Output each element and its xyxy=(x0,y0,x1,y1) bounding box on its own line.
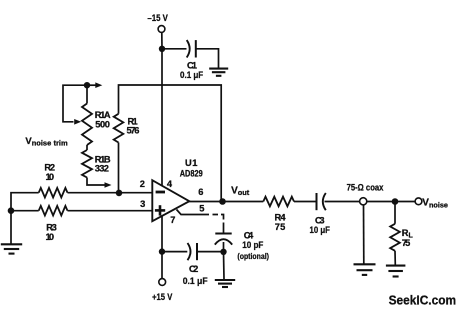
wire: C1 to its ground xyxy=(196,49,219,68)
wire: R2 to op-amp pin 2 xyxy=(68,192,153,194)
capacitor C2 0.1 uF xyxy=(183,243,208,286)
svg-text:500: 500 xyxy=(95,120,110,130)
svg-text:R1A: R1A xyxy=(95,110,111,120)
wiper arrow into R1A xyxy=(74,119,81,125)
ground (RL) xyxy=(386,265,406,267)
wire: R3 to op-amp pin 3 xyxy=(68,210,153,212)
wire: R1A top loop (left column) xyxy=(63,85,87,122)
wire: C3 to coax connector xyxy=(325,201,360,203)
svg-text:Vout: Vout xyxy=(231,186,250,198)
svg-text:(optional): (optional) xyxy=(237,252,269,261)
wire: op-amp output to R4 xyxy=(189,201,263,203)
wire: -15V terminal to rail junction xyxy=(161,32,163,48)
node: pin7 rail / C2 junction xyxy=(159,248,165,254)
wire: junction to C1 xyxy=(162,48,187,50)
resistor R3 10 xyxy=(39,206,68,242)
potentiometer R1A 500 xyxy=(82,85,111,145)
svg-text:–15 V: –15 V xyxy=(147,13,168,23)
wire: node down to ground xyxy=(223,252,226,279)
svg-text:7: 7 xyxy=(170,215,175,225)
wire: left corner to R2 xyxy=(11,193,39,244)
wire: op-amp pin 7 to +15V xyxy=(161,216,163,278)
svg-text:Vnoise: Vnoise xyxy=(422,198,448,210)
svg-text:332: 332 xyxy=(95,164,109,174)
node: RL / Vnoise junction xyxy=(392,198,399,205)
node: output / feedback junction xyxy=(219,198,226,205)
wire: -15V rail down to op-amp pin 4 xyxy=(161,49,163,186)
svg-text:SeekIC.com: SeekIC.com xyxy=(389,292,457,307)
wire: coax to RL node xyxy=(367,201,415,203)
svg-text:6: 6 xyxy=(198,187,203,197)
node: C4 / C2 ground-leg junction xyxy=(220,249,226,255)
wire: R1 bottom to inverting-input node xyxy=(118,143,120,193)
svg-text:10: 10 xyxy=(46,172,55,182)
ground (C1) xyxy=(209,68,228,70)
ground (C4 / C2) xyxy=(215,279,235,281)
ground (input network) xyxy=(1,243,22,245)
supply +15 V terminal xyxy=(152,279,173,303)
wire: R4 to C3 xyxy=(294,201,317,203)
ground (coax shield) xyxy=(354,263,376,265)
node: -15V rail / C1 junction xyxy=(159,46,165,52)
wire: feedback net (R1 top to output) xyxy=(119,85,222,202)
coax connector node xyxy=(360,198,367,205)
svg-text:3: 3 xyxy=(140,199,145,209)
svg-text:R2: R2 xyxy=(44,162,55,172)
svg-text:Vnoisetrim: Vnoisetrim xyxy=(25,136,67,148)
resistor RL 75 xyxy=(390,202,413,265)
svg-text:75-Ω coax: 75-Ω coax xyxy=(347,183,384,193)
svg-text:576: 576 xyxy=(127,126,140,136)
capacitor C4 10 pF (optional) xyxy=(215,231,269,261)
wire: coax shield to ground xyxy=(363,205,365,264)
terminal Vnoise xyxy=(415,198,448,210)
svg-text:+15 V: +15 V xyxy=(152,292,173,302)
wire: C2 to C4 ground node xyxy=(197,251,224,253)
node: R1A top junction xyxy=(84,82,90,88)
capacitor C3 10 uF xyxy=(310,193,331,235)
wire: junction to C2 xyxy=(162,251,187,253)
resistor R2 10 xyxy=(39,162,68,197)
svg-text:75: 75 xyxy=(275,222,286,232)
wiper arrow (top, to feedback net) xyxy=(87,84,96,86)
resistor R1B 332 xyxy=(82,150,111,178)
svg-text:5: 5 xyxy=(199,203,204,213)
svg-text:10: 10 xyxy=(46,232,55,242)
supply -15 V terminal xyxy=(147,13,168,32)
resistor R4 75 xyxy=(263,197,294,232)
op-amp U1 AD829 xyxy=(140,158,205,225)
svg-text:C2: C2 xyxy=(189,264,198,274)
svg-text:75: 75 xyxy=(402,238,411,248)
wire: R1A to R1B xyxy=(86,145,88,150)
wire: node to R3 xyxy=(11,210,39,212)
wire + wiper arrow (R1B bottom) xyxy=(87,178,105,186)
svg-text:0.1 μF: 0.1 μF xyxy=(180,70,203,80)
wire: dashed optional connection to C4 xyxy=(213,215,224,233)
node: ground / R3 junction xyxy=(8,207,15,214)
svg-text:4: 4 xyxy=(167,179,173,189)
svg-text:0.1 μF: 0.1 μF xyxy=(183,276,208,286)
svg-text:AD829: AD829 xyxy=(180,169,203,179)
wire: pin 5 stub (solid part) xyxy=(177,210,210,215)
svg-text:10 μF: 10 μF xyxy=(310,225,331,235)
svg-text:10 pF: 10 pF xyxy=(242,240,263,250)
svg-text:2: 2 xyxy=(140,179,145,189)
capacitor C1 0.1 uF xyxy=(180,40,203,80)
resistor R1 576 xyxy=(114,114,140,143)
svg-text:U1: U1 xyxy=(185,158,197,168)
node: inverting input / R1 junction xyxy=(116,190,123,197)
